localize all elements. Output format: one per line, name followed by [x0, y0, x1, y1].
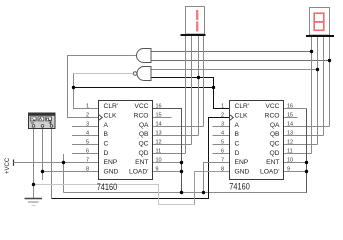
svg-text:QD: QD	[269, 150, 279, 157]
svg-text:9: 9	[287, 166, 290, 172]
svg-text:ENT: ENT	[266, 159, 279, 166]
svg-text:16: 16	[287, 103, 293, 109]
svg-text:15: 15	[287, 112, 293, 118]
svg-text:2: 2	[86, 112, 89, 118]
svg-text:15: 15	[156, 112, 162, 118]
svg-text:5: 5	[86, 139, 89, 145]
svg-text:1: 1	[221, 103, 224, 109]
svg-text:D: D	[235, 150, 240, 157]
svg-text:RCO: RCO	[134, 112, 149, 119]
svg-text:GND: GND	[104, 168, 119, 175]
svg-text:CLK: CLK	[235, 112, 249, 119]
svg-text:QA: QA	[139, 122, 149, 129]
svg-text:3: 3	[221, 121, 224, 127]
svg-text:QB: QB	[139, 131, 149, 138]
svg-text:11: 11	[287, 148, 293, 154]
svg-text:LOAD': LOAD'	[260, 168, 280, 175]
svg-text:8: 8	[86, 166, 89, 172]
svg-text:13: 13	[287, 130, 293, 136]
svg-text:CLR': CLR'	[104, 103, 119, 110]
svg-text:QB: QB	[270, 131, 280, 138]
svg-text:B: B	[235, 131, 240, 138]
svg-text:10: 10	[287, 157, 293, 163]
svg-text:7: 7	[86, 157, 89, 163]
svg-text:4: 4	[221, 130, 224, 136]
svg-text:B: B	[104, 131, 109, 138]
svg-text:5: 5	[221, 139, 224, 145]
svg-text:CLR': CLR'	[235, 103, 250, 110]
svg-text:A: A	[104, 122, 109, 129]
svg-text:QC: QC	[269, 140, 279, 147]
svg-text:CLK: CLK	[104, 112, 118, 119]
svg-text:8: 8	[221, 166, 224, 172]
svg-text:GND: GND	[235, 168, 250, 175]
svg-text:16: 16	[156, 103, 162, 109]
svg-text:4: 4	[86, 130, 89, 136]
svg-text:VCC: VCC	[134, 103, 148, 110]
svg-text:QC: QC	[138, 140, 148, 147]
svg-text:ENP: ENP	[104, 159, 118, 166]
svg-text:QD: QD	[138, 150, 148, 157]
svg-text:C: C	[104, 140, 109, 147]
svg-text:7: 7	[221, 157, 224, 163]
svg-text:3: 3	[86, 121, 89, 127]
svg-text:12: 12	[156, 139, 162, 145]
svg-text:14: 14	[156, 121, 162, 127]
svg-text:C: C	[235, 140, 240, 147]
svg-text:6: 6	[86, 148, 89, 154]
svg-text:2: 2	[221, 112, 224, 118]
svg-text:RCO: RCO	[265, 112, 280, 119]
svg-text:VCC: VCC	[265, 103, 279, 110]
svg-text:74160: 74160	[97, 182, 118, 192]
svg-text:14: 14	[287, 121, 293, 127]
svg-text:D: D	[104, 150, 109, 157]
svg-text:13: 13	[156, 130, 162, 136]
svg-text:+VCC: +VCC	[5, 157, 11, 174]
svg-text:A: A	[235, 122, 240, 129]
svg-text:74160: 74160	[229, 182, 250, 192]
svg-text:9: 9	[156, 166, 159, 172]
svg-text:ENP: ENP	[235, 159, 249, 166]
svg-text:11: 11	[156, 148, 162, 154]
svg-text:ENT: ENT	[135, 159, 148, 166]
svg-text:1: 1	[86, 103, 89, 109]
svg-text:12: 12	[287, 139, 293, 145]
svg-text:LOAD': LOAD'	[129, 168, 149, 175]
svg-text:10: 10	[156, 157, 162, 163]
svg-text:QA: QA	[270, 122, 280, 129]
svg-text:6: 6	[221, 148, 224, 154]
